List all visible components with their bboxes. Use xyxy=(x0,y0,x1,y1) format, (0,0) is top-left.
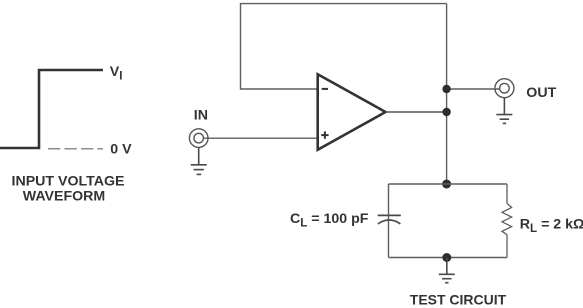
svg-text:INPUT VOLTAGE: INPUT VOLTAGE xyxy=(12,173,125,189)
ground at OUT connector xyxy=(496,97,512,123)
svg-text:TEST CIRCUIT: TEST CIRCUIT xyxy=(410,292,507,308)
svg-text:0 V: 0 V xyxy=(110,141,132,157)
resistor RL xyxy=(502,184,512,258)
connector IN (coax jack) xyxy=(189,129,208,148)
svg-text:CL = 100 pF: CL = 100 pF xyxy=(290,211,369,229)
junction dot: load top node xyxy=(442,180,451,189)
wire: IN to non-inverting input xyxy=(204,137,318,139)
op-amp inverting input "-" sign xyxy=(322,88,328,90)
capacitor CL xyxy=(378,184,401,258)
op-amp U1 xyxy=(318,74,386,150)
ground at IN connector xyxy=(191,147,207,174)
ground at load network xyxy=(439,258,455,283)
wire: dashed 0 V reference line xyxy=(48,148,103,150)
svg-text:WAVEFORM: WAVEFORM xyxy=(23,188,106,204)
wire: bus to OUT connector xyxy=(447,88,500,90)
svg-text:IN: IN xyxy=(194,107,208,123)
junction dot: OUT branch xyxy=(442,85,450,93)
svg-text:VI: VI xyxy=(110,64,123,82)
junction dot: load bottom node xyxy=(442,253,451,262)
connector OUT (coax jack) xyxy=(495,79,514,98)
wire: output bus vertical xyxy=(446,4,448,184)
wire: load network top rail xyxy=(389,183,508,185)
svg-text:OUT: OUT xyxy=(526,85,556,101)
junction dot: op-amp output xyxy=(442,108,450,116)
wire: op-amp output to bus xyxy=(386,111,447,113)
wire: load network bottom rail xyxy=(389,257,508,259)
op-amp non-inverting input "+" sign xyxy=(321,131,328,138)
svg-text:RL = 2 kΩ: RL = 2 kΩ xyxy=(520,216,583,234)
wire: feedback loop from output node to inverting input xyxy=(241,4,447,89)
wire: input step waveform low-level segment xyxy=(0,70,103,148)
